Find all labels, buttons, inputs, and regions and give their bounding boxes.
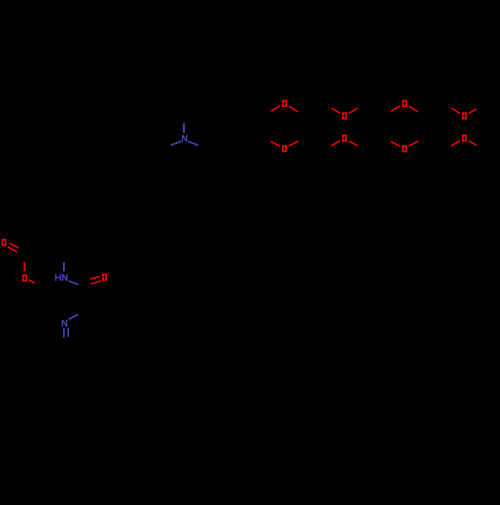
bond N1-CH2 down-right [188,141,198,145]
atom O7 (methyl ether, upper chain) [462,112,467,119]
bond O7-CH2 left [451,108,460,113]
atom O5 (ether, upper chain) [402,100,407,107]
bond N3-C up-right [69,314,79,319]
bond O1-aryl left [271,106,280,111]
atom O9 (ester carbonyl oxygen) [2,239,7,246]
bond O4-CH2 right [349,141,358,146]
atom O3 (ether, upper chain) [342,112,347,119]
bond O7-CH3 right [469,109,477,113]
double bond N3=C down line a [63,328,65,338]
bond O4-CH2 left [331,141,340,146]
amine N1 (dimethylamino nitrogen) [183,135,187,142]
double bond C=O9 line a [10,243,19,248]
bond O8-CH2 left [451,141,460,146]
atom O2 (aryl ether, lower chain) [282,145,287,152]
imine N3 label [63,320,67,327]
bond O10-C(=O) up [23,262,25,271]
amide N2 label [63,274,67,281]
bond N1-CH3 down-left [171,141,181,145]
double bond N3=C down line b [67,328,69,337]
bond O10-CH3 down-right [29,280,35,283]
atom O4 (ether, lower chain) [342,135,347,142]
bond O3-CH2 left [331,108,340,113]
bond O1-CH2 right [289,106,298,112]
bond O5-CH2 left [391,106,400,111]
atom O11 (amide carbonyl oxygen) [102,274,107,281]
bond O8-CH3 right [469,141,477,145]
bond O6-CH2 right [409,141,419,146]
bond N2-C(=O) down-right [69,281,79,285]
bond O6-CH2 left [391,142,400,147]
double bond C=O11 line b [91,281,101,284]
atom O8 (methyl ether, lower chain) [462,135,467,142]
bond O5-CH2 right [409,106,418,112]
bond O2-aryl left [271,142,280,147]
atom O1 (aryl ether, upper chain) [282,100,287,107]
atom O6 (ether, lower chain) [402,145,407,152]
atom O10 (ester ether oxygen) [22,274,27,281]
double bond C=O9 line b [8,247,17,252]
bond O2-CH2 right [289,141,299,146]
bond N1-CH3 up [183,123,185,133]
amide H label [56,274,61,281]
bond O3-CH2 right [349,108,358,113]
double bond C=O11 line a [90,276,100,279]
bond N2-CH2 up [63,262,65,271]
